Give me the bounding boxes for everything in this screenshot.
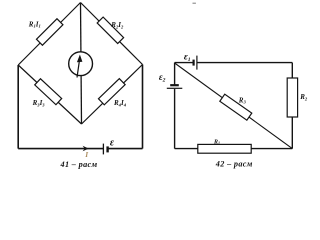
- resistor R3 (diagonal): [220, 94, 252, 120]
- wire: right circuit right edge lower segment: [291, 117, 293, 149]
- svg-text:R1: R1: [213, 139, 220, 145]
- svg-text:ε2: ε2: [159, 72, 166, 84]
- svg-text:R2I2: R2I2: [110, 21, 124, 29]
- wire: bridge center diagonal with galvanometer: [81, 3, 82, 125]
- wire: diagonal from top-left corner to bottom-right corner: [175, 63, 293, 149]
- wire: bridge branch top vertex to left vertex: [18, 3, 80, 66]
- wire: right circuit right edge upper segment: [291, 63, 293, 78]
- svg-text:ε: ε: [110, 137, 115, 148]
- battery E1 (long plate): [196, 56, 198, 70]
- resistor R2 (right edge): [287, 78, 297, 117]
- svg-text:R4I4: R4I4: [113, 99, 127, 107]
- svg-text:42 – расм: 42 – расм: [215, 160, 253, 169]
- svg-text:R1I1: R1I1: [28, 20, 41, 28]
- wire: right circuit left edge lower segment: [174, 89, 176, 149]
- svg-text:ε1: ε1: [184, 52, 191, 63]
- wire: right vertex down to bottom rail: [142, 65, 144, 149]
- galvanometer G: [69, 52, 93, 78]
- resistor R1 (top-left branch): [36, 19, 62, 45]
- resistor R1 (bottom edge): [198, 144, 251, 153]
- svg-text:R3I3: R3I3: [32, 99, 46, 107]
- wire: bridge branch left vertex to bottom vertex: [18, 65, 81, 124]
- current arrow I on bottom rail: [83, 146, 89, 151]
- battery E2 (short thick plate): [170, 84, 179, 86]
- wire: right circuit bottom edge right segment: [251, 148, 292, 150]
- resistor R2 (top-right branch): [97, 17, 123, 43]
- battery E (left circuit, long plate): [102, 144, 104, 155]
- svg-text:R3: R3: [238, 96, 247, 104]
- wire: bottom rail right segment: [108, 148, 143, 150]
- svg-text:41 – расм: 41 – расм: [60, 160, 98, 169]
- wire: bottom rail left segment: [18, 148, 103, 150]
- battery E (left circuit, short thick plate): [106, 146, 108, 152]
- wire: bridge branch top vertex to right vertex: [81, 3, 143, 65]
- wire: bridge branch right vertex to bottom vertex: [82, 65, 143, 125]
- wire: right circuit top edge left segment: [175, 62, 193, 64]
- resistor R4 (bottom-right branch): [98, 79, 125, 105]
- stray mark: [193, 3, 196, 4]
- wire: right circuit top edge right segment: [198, 62, 293, 64]
- battery E2 (long plate): [167, 87, 183, 89]
- wire: right circuit left edge upper segment: [174, 63, 176, 85]
- wire: right circuit bottom edge left segment: [175, 148, 198, 150]
- svg-text:R2: R2: [299, 93, 308, 101]
- resistor R3 (bottom-left branch): [35, 79, 62, 105]
- battery E1 (short thick plate): [193, 60, 195, 66]
- svg-text:I: I: [84, 150, 89, 159]
- wire: left vertex down to bottom rail: [17, 65, 19, 149]
